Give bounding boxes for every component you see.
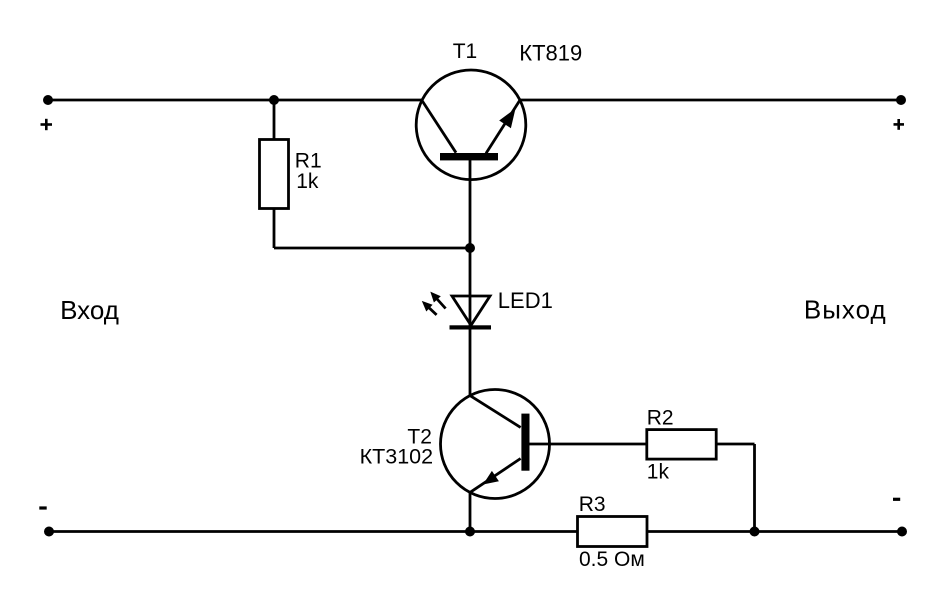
svg-text:КТ3102: КТ3102: [360, 444, 434, 468]
svg-text:Вход: Вход: [60, 295, 119, 325]
svg-text:0.5 Ом: 0.5 Ом: [579, 548, 645, 571]
svg-text:R2: R2: [647, 406, 674, 429]
svg-text:T1: T1: [453, 40, 478, 63]
svg-text:1k: 1k: [647, 461, 670, 484]
svg-text:R3: R3: [579, 493, 606, 516]
svg-text:LED1: LED1: [498, 288, 553, 313]
svg-text:1k: 1k: [296, 170, 319, 193]
svg-text:Выход: Выход: [804, 295, 887, 325]
svg-text:КТ819: КТ819: [519, 41, 582, 66]
